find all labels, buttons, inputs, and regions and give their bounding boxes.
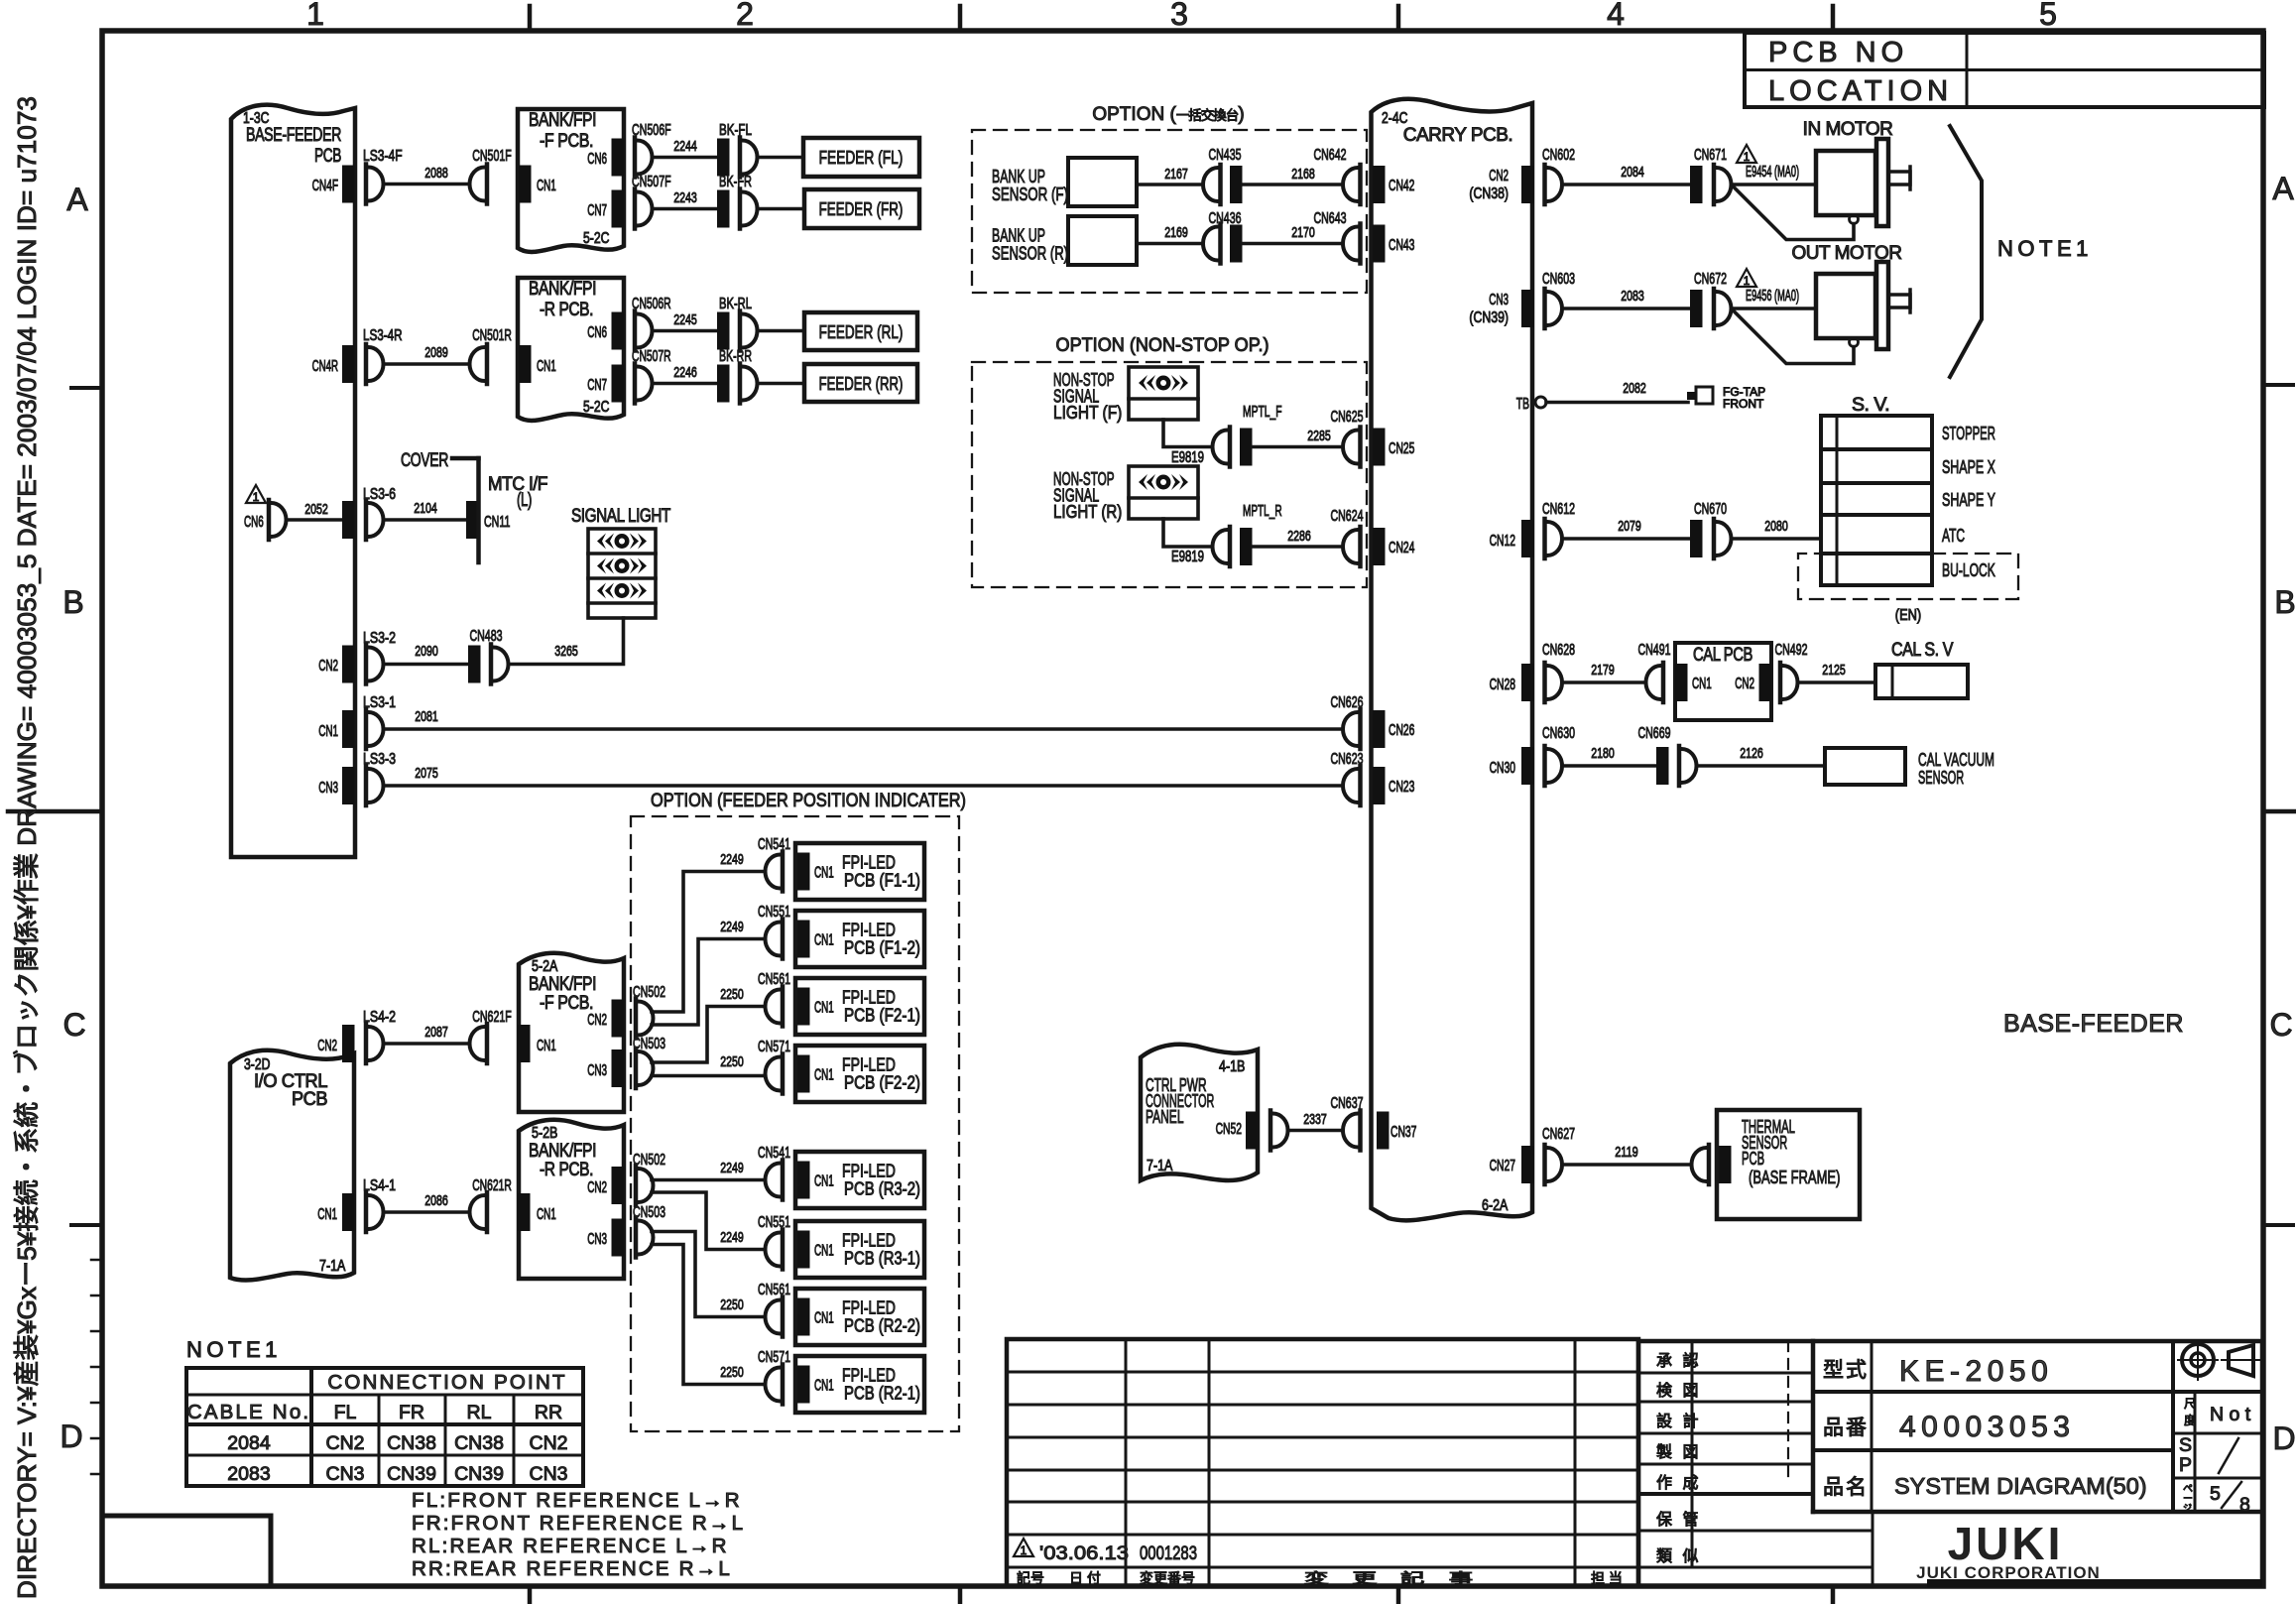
svg-text:40003053: 40003053 xyxy=(1899,1411,2075,1443)
svg-text:E9819: E9819 xyxy=(1171,549,1204,565)
svg-text:CN541: CN541 xyxy=(758,836,790,853)
svg-text:CN561: CN561 xyxy=(758,971,790,988)
svg-text:CN612: CN612 xyxy=(1542,501,1575,518)
connector CN503 on 5-2B xyxy=(636,1218,654,1258)
bottom tick 3/4 xyxy=(1396,1586,1401,1602)
svg-text:2249: 2249 xyxy=(720,1160,744,1176)
connector CN501R xyxy=(470,344,487,384)
connector CN1 header on FPI-LED F2-1 xyxy=(797,988,810,1026)
wire 2286 xyxy=(1253,545,1344,549)
connector CN2 header on CAL PCB xyxy=(1759,664,1772,701)
svg-text:-R PCB.: -R PCB. xyxy=(540,1160,593,1180)
svg-text:担 当: 担 当 xyxy=(1591,1570,1623,1586)
wire 2087 xyxy=(384,1042,470,1046)
connector CN1 header on FPI-LED R2-2 xyxy=(797,1298,810,1336)
svg-text:CN501F: CN501F xyxy=(472,148,512,165)
non-stop signal light R box xyxy=(1129,466,1198,519)
connector CN37 header on CARRY xyxy=(1377,1112,1390,1150)
svg-text:4: 4 xyxy=(1607,0,1625,32)
svg-text:6-2A: 6-2A xyxy=(1482,1197,1509,1214)
connector CN669 header xyxy=(1656,747,1669,785)
SIGNAL LIGHT box xyxy=(588,529,656,618)
wire 2084 xyxy=(1562,183,1690,186)
connector CN623 xyxy=(1343,766,1361,805)
svg-text:BK-RR: BK-RR xyxy=(719,348,752,365)
wire 2244 xyxy=(653,156,718,160)
wire 2170 xyxy=(1243,242,1344,246)
svg-text:BK-FR: BK-FR xyxy=(719,174,752,190)
svg-text:FEEDER (FL): FEEDER (FL) xyxy=(819,147,904,168)
connector CN571 (R) xyxy=(766,1365,784,1405)
connector CN6 header on BANK/FPI-F xyxy=(612,139,625,177)
connector CN24 header on CARRY xyxy=(1373,528,1386,565)
connector CN671 plug xyxy=(1714,165,1732,204)
connector CN436 plug xyxy=(1203,224,1221,264)
svg-text:CN571: CN571 xyxy=(758,1349,790,1366)
wire 2250 CN503R to CN571 xyxy=(652,1245,766,1385)
svg-text:PCB (R3-2): PCB (R3-2) xyxy=(844,1178,920,1199)
CAL VACUUM SENSOR box xyxy=(1825,748,1905,785)
connector CN1 header on BASE-FEEDER xyxy=(342,710,355,748)
connector CN642 xyxy=(1343,165,1361,204)
svg-text:CN2: CN2 xyxy=(1489,168,1509,185)
BANK/FPI-F PCB box (5-2A) xyxy=(519,953,624,1112)
svg-text:CN1: CN1 xyxy=(537,358,556,375)
connector CN1 header on FPI-LED R3-2 xyxy=(797,1162,810,1199)
FPI-LED PCB (R2-1) box xyxy=(795,1356,924,1413)
svg-text:FEEDER (FR): FEEDER (FR) xyxy=(819,198,904,219)
revision entry triangle xyxy=(1014,1539,1033,1556)
svg-text:2169: 2169 xyxy=(1164,224,1188,241)
svg-text:2250: 2250 xyxy=(720,986,744,1003)
connector CN506F xyxy=(635,138,653,178)
connector CN2 header on CARRY xyxy=(1521,166,1534,203)
wire 2245 xyxy=(653,329,718,333)
BU-LOCK dashed box xyxy=(1798,554,2018,599)
svg-text:保 管: 保 管 xyxy=(1656,1511,1701,1529)
svg-text:BK-RL: BK-RL xyxy=(719,296,752,312)
svg-text:SENSOR (F): SENSOR (F) xyxy=(992,184,1068,204)
wire CN671 to IN motor xyxy=(1732,183,1817,186)
connector CN627 xyxy=(1545,1145,1563,1184)
connector CN483 xyxy=(491,645,509,684)
svg-text:CN3: CN3 xyxy=(529,1463,567,1485)
svg-text:2087: 2087 xyxy=(424,1024,448,1041)
svg-text:S: S xyxy=(2179,1434,2192,1456)
wire 2075 to CN623 xyxy=(384,784,1343,788)
wire 2249 CN502R to CN551 xyxy=(652,1192,766,1250)
connector CN436 header xyxy=(1230,225,1243,263)
wire light R to E9819 xyxy=(1163,519,1213,547)
wire 2167 xyxy=(1137,183,1203,186)
svg-text:LS3-4R: LS3-4R xyxy=(363,327,403,344)
BANK UP SENSOR (F) box xyxy=(1068,158,1137,206)
svg-text:2084: 2084 xyxy=(227,1432,271,1454)
svg-text:CN623: CN623 xyxy=(1331,751,1364,768)
svg-text:2286: 2286 xyxy=(1287,528,1311,545)
FPI-LED PCB (F1-2) box xyxy=(795,911,924,967)
svg-text:2337: 2337 xyxy=(1303,1111,1327,1128)
svg-text:0001283: 0001283 xyxy=(1140,1542,1197,1564)
svg-text:(BASE FRAME): (BASE FRAME) xyxy=(1749,1167,1840,1187)
OPTION non-stop dashed box xyxy=(972,362,1367,587)
connector CN602 xyxy=(1545,165,1563,204)
svg-text:E9456 (MA0): E9456 (MA0) xyxy=(1746,288,1799,305)
wire 2082 xyxy=(1546,401,1688,405)
svg-text:2249: 2249 xyxy=(720,851,744,868)
svg-text:CN1: CN1 xyxy=(317,1206,337,1223)
svg-text:CN502: CN502 xyxy=(633,984,665,1001)
bottom tick 1/2 xyxy=(528,1586,533,1602)
svg-text:CN4F: CN4F xyxy=(312,178,338,194)
JUKI logo xyxy=(1916,1518,2101,1582)
connector CN643 xyxy=(1343,224,1361,264)
wire IN motor encoder return xyxy=(1733,185,1855,240)
I/O CTRL PCB box (3-2D) xyxy=(230,1050,354,1281)
row divider B/C left long xyxy=(8,809,102,814)
connector CN52 plug xyxy=(1270,1111,1288,1151)
svg-text:SYSTEM DIAGRAM(50): SYSTEM DIAGRAM(50) xyxy=(1894,1473,2147,1499)
svg-text:5-2B: 5-2B xyxy=(532,1125,557,1142)
svg-text:4-1B: 4-1B xyxy=(1219,1058,1245,1075)
svg-text:PCB: PCB xyxy=(292,1089,327,1110)
svg-text:PCB: PCB xyxy=(1742,1148,1764,1169)
svg-text:CAL PCB: CAL PCB xyxy=(1693,645,1752,666)
connector MPTL_R plug xyxy=(1213,527,1230,566)
wire 2249 CN502 to CN551 xyxy=(652,939,766,1026)
svg-text:PANEL: PANEL xyxy=(1146,1106,1184,1127)
FPI-LED PCB (R3-1) box xyxy=(795,1221,924,1278)
connector CN551 (R) xyxy=(766,1230,784,1270)
connector CN1 header on FPI-LED F1-2 xyxy=(797,921,810,958)
connector LS3-4F xyxy=(366,165,384,204)
svg-text:CN3: CN3 xyxy=(1489,292,1509,308)
wire 2250 CN503R to CN561 xyxy=(652,1232,766,1317)
bottom tick 2/3 xyxy=(958,1586,963,1602)
connector CN541 (R) xyxy=(766,1161,784,1200)
connector CN1 header on FPI-LED R2-1 xyxy=(797,1366,810,1404)
FPI-LED PCB (F1-1) box xyxy=(795,843,924,900)
svg-text:5-2A: 5-2A xyxy=(532,958,558,975)
svg-text:2180: 2180 xyxy=(1591,745,1615,762)
NOTE1 connection point table xyxy=(186,1368,583,1486)
wire 2249 CN502R to CN541 xyxy=(652,1178,766,1182)
connector LS3-1 xyxy=(366,709,384,749)
svg-text:CN628: CN628 xyxy=(1542,642,1575,659)
wire BK-FR to feeder xyxy=(758,207,805,211)
OPTION bank-exchange dashed box xyxy=(972,130,1367,293)
S.V. box xyxy=(1821,416,1932,585)
svg-text:SHAPE Y: SHAPE Y xyxy=(1942,489,1995,510)
connector CN637 xyxy=(1343,1111,1361,1151)
connector CN501F xyxy=(470,165,487,204)
svg-text:CN3: CN3 xyxy=(325,1463,364,1485)
svg-text:CN506F: CN506F xyxy=(632,122,671,139)
svg-text:PCB (R2-2): PCB (R2-2) xyxy=(844,1315,920,1336)
title block bottom bar xyxy=(1927,1579,2262,1587)
left border graduation tick 7 xyxy=(91,1473,102,1476)
svg-text:8: 8 xyxy=(2239,1494,2250,1516)
svg-text:CN436: CN436 xyxy=(1209,210,1242,227)
svg-text:A: A xyxy=(66,182,88,217)
svg-text:2245: 2245 xyxy=(673,311,697,328)
svg-text:品名: 品名 xyxy=(1823,1476,1869,1499)
wire 2104 xyxy=(384,518,467,522)
svg-text:E9454 (MA0): E9454 (MA0) xyxy=(1746,164,1799,181)
wire 2119 xyxy=(1562,1163,1692,1167)
svg-text:7-1A: 7-1A xyxy=(319,1258,346,1275)
svg-text:2285: 2285 xyxy=(1307,428,1331,444)
FEEDER (FR) box xyxy=(804,189,919,228)
svg-text:JUKI: JUKI xyxy=(1948,1518,2064,1569)
svg-text:FL: FL xyxy=(334,1402,357,1423)
svg-text:LS3-6: LS3-6 xyxy=(363,486,396,503)
left border graduation tick 4 xyxy=(91,1366,102,1369)
left border graduation tick 3 xyxy=(91,1330,102,1333)
svg-text:CN507R: CN507R xyxy=(632,348,671,365)
svg-text:B: B xyxy=(2274,584,2295,620)
connector BK-FL header xyxy=(717,139,730,177)
svg-text:2088: 2088 xyxy=(424,165,448,182)
svg-text:類 似: 類 似 xyxy=(1656,1547,1701,1565)
wire 2052 xyxy=(287,518,343,522)
svg-text:CN502: CN502 xyxy=(633,1152,665,1169)
svg-text:2084: 2084 xyxy=(1621,164,1644,181)
svg-text:CN551: CN551 xyxy=(758,904,790,921)
connector CN3 header on 5-2A xyxy=(612,1049,625,1087)
svg-text:2083: 2083 xyxy=(1621,288,1644,305)
svg-text:CN2: CN2 xyxy=(317,1038,337,1054)
svg-text:CN39: CN39 xyxy=(454,1463,504,1485)
wire light F to E9819 xyxy=(1163,420,1213,447)
connector LS3-6 xyxy=(366,500,384,540)
connector BK-FL plug xyxy=(740,138,758,178)
wire BK-FL to feeder xyxy=(758,156,804,160)
svg-text:2086: 2086 xyxy=(424,1192,448,1209)
non-stop light R lamp symbol xyxy=(1139,474,1188,490)
connector CN483 header xyxy=(468,646,481,683)
connector CN670 plug xyxy=(1714,519,1732,558)
connector CN12 header on CARRY xyxy=(1521,520,1534,557)
connector BK-RR plug xyxy=(740,364,758,404)
wire 3265 to signal light xyxy=(509,618,624,665)
svg-text:2082: 2082 xyxy=(1623,380,1646,397)
BANK/FPI-R PCB box (5-2B) xyxy=(519,1120,624,1279)
svg-text:CN503: CN503 xyxy=(633,1204,665,1221)
svg-text:CN2: CN2 xyxy=(529,1432,567,1454)
connector CN541 (F) xyxy=(766,852,784,892)
BASE-FEEDER PCB box xyxy=(231,105,355,857)
svg-text:CN672: CN672 xyxy=(1694,271,1727,288)
svg-text:B: B xyxy=(62,584,83,620)
svg-text:7-1A: 7-1A xyxy=(1147,1158,1173,1174)
svg-text:CN38: CN38 xyxy=(387,1432,436,1454)
PCB NO / LOCATION table xyxy=(1745,33,2264,107)
title block frame xyxy=(1638,1341,2262,1586)
svg-text:BANK/FPI: BANK/FPI xyxy=(529,279,596,300)
wire 2179 xyxy=(1562,680,1646,684)
column tick 4/5 xyxy=(1831,6,1836,31)
wire 2337 xyxy=(1288,1129,1344,1133)
svg-text:CN12: CN12 xyxy=(1490,533,1515,550)
svg-text:DIRECTORY= V:¥産装¥Gxー5¥接続・系統・ブ: DIRECTORY= V:¥産装¥Gxー5¥接続・系統・ブロック関係¥作業 DR… xyxy=(12,96,42,1599)
svg-text:LIGHT (R): LIGHT (R) xyxy=(1053,501,1122,522)
wire BK-RL to feeder xyxy=(758,329,805,333)
svg-text:CN503: CN503 xyxy=(633,1036,665,1052)
svg-text:CN551: CN551 xyxy=(758,1214,790,1231)
connector CN621R xyxy=(470,1192,487,1232)
svg-text:COVER: COVER xyxy=(401,450,448,471)
svg-text:C: C xyxy=(2269,1007,2292,1043)
connector CN561 (R) xyxy=(766,1297,784,1337)
svg-text:CN501R: CN501R xyxy=(472,327,512,344)
svg-text:2: 2 xyxy=(736,0,754,32)
connector CN30 header on CARRY xyxy=(1521,747,1534,785)
svg-text:2075: 2075 xyxy=(415,765,438,782)
CAL PCB box xyxy=(1675,643,1771,720)
svg-text:CAL S. V: CAL S. V xyxy=(1891,640,1954,661)
svg-text:FR:FRONT REFERENCE R→L: FR:FRONT REFERENCE R→L xyxy=(412,1512,745,1535)
svg-text:CN28: CN28 xyxy=(1490,677,1515,693)
svg-text:2090: 2090 xyxy=(415,643,438,660)
svg-text:CN38: CN38 xyxy=(454,1432,504,1454)
column tick 3/4 xyxy=(1396,6,1401,31)
svg-text:CN1: CN1 xyxy=(537,1206,556,1223)
svg-text:CN1: CN1 xyxy=(814,1000,834,1017)
svg-text:CN1: CN1 xyxy=(814,1310,834,1327)
svg-text:RR:REAR REFERENCE R→L: RR:REAR REFERENCE R→L xyxy=(412,1557,732,1580)
wire 2125 xyxy=(1798,680,1876,684)
svg-text:CN624: CN624 xyxy=(1331,508,1364,525)
svg-text:2170: 2170 xyxy=(1291,224,1315,241)
svg-text:CN602: CN602 xyxy=(1542,147,1575,164)
svg-text:PCB (R3-1): PCB (R3-1) xyxy=(844,1248,920,1269)
svg-text:BASE-FEEDER: BASE-FEEDER xyxy=(246,125,341,146)
svg-text:2126: 2126 xyxy=(1740,745,1763,762)
connector CN3 header on 5-2B xyxy=(612,1219,625,1257)
connector MPTL_F plug xyxy=(1213,428,1230,467)
svg-text:PCB (R2-1): PCB (R2-1) xyxy=(844,1383,920,1404)
svg-text:CN483: CN483 xyxy=(470,628,503,645)
svg-text:D: D xyxy=(60,1419,82,1454)
connector LS3-6 header on BASE-FEEDER xyxy=(342,501,355,539)
svg-text:CN1: CN1 xyxy=(537,1038,556,1054)
revision triangle 1 xyxy=(1737,269,1756,287)
FPI-LED PCB (R3-2) box xyxy=(795,1152,924,1208)
wire 2243 xyxy=(653,207,718,211)
svg-text:PCB (F2-2): PCB (F2-2) xyxy=(844,1072,920,1093)
svg-text:CN1: CN1 xyxy=(814,932,834,949)
svg-text:(L): (L) xyxy=(517,490,532,511)
svg-text:1: 1 xyxy=(1744,274,1751,288)
svg-text:FRONT: FRONT xyxy=(1723,397,1764,411)
svg-text:2104: 2104 xyxy=(414,500,437,517)
connector LS4-1 xyxy=(366,1192,384,1232)
connector CN625 xyxy=(1343,428,1361,467)
CTRL PWR CONNECTOR PANEL box (4-1B) xyxy=(1141,1045,1258,1180)
IN MOTOR xyxy=(1816,139,1910,226)
svg-text:2083: 2083 xyxy=(227,1463,270,1485)
svg-text:CN2: CN2 xyxy=(318,658,338,675)
wire OUT motor encoder return xyxy=(1733,309,1855,364)
FPI-LED PCB (R2-2) box xyxy=(795,1289,924,1345)
connector CN1 header on CAL PCB xyxy=(1675,664,1688,701)
svg-text:CN642: CN642 xyxy=(1314,147,1347,164)
THERMAL SENSOR PCB box xyxy=(1717,1110,1860,1219)
svg-text:CN25: CN25 xyxy=(1389,440,1414,457)
connector CN669 plug xyxy=(1679,746,1697,786)
svg-text:3: 3 xyxy=(1170,0,1188,32)
svg-text:2080: 2080 xyxy=(1764,518,1788,535)
connector BK-FR header xyxy=(717,190,730,228)
svg-text:SENSOR (R): SENSOR (R) xyxy=(992,243,1068,264)
connector CN612 xyxy=(1545,519,1563,558)
svg-text:CN2: CN2 xyxy=(325,1432,364,1454)
connector CN4R header on BASE-FEEDER xyxy=(342,345,355,383)
connector CN626 xyxy=(1343,709,1361,749)
bottom-left stamp box xyxy=(102,1516,271,1586)
connector CN1 header on FPI-LED R3-1 xyxy=(797,1231,810,1269)
svg-text:CN669: CN669 xyxy=(1638,725,1671,742)
connector BK-FR plug xyxy=(740,189,758,229)
svg-text:SHAPE X: SHAPE X xyxy=(1942,456,1995,477)
svg-text:CN506R: CN506R xyxy=(632,296,671,312)
svg-text:CN1: CN1 xyxy=(814,1173,834,1190)
svg-text:PCB: PCB xyxy=(314,146,341,167)
connector CN1 header on FPI-LED F2-2 xyxy=(797,1055,810,1093)
connector CN571 (F) xyxy=(766,1054,783,1094)
svg-text:CN1: CN1 xyxy=(814,1067,834,1084)
TB terminal circle xyxy=(1535,397,1546,408)
svg-text:CN571: CN571 xyxy=(758,1039,790,1055)
connector CN2 header on 5-2B xyxy=(612,1167,625,1204)
svg-text:N o t: N o t xyxy=(2210,1404,2251,1425)
svg-text:1: 1 xyxy=(1744,150,1751,164)
svg-text:SENSOR: SENSOR xyxy=(1918,767,1964,788)
FEEDER (RR) box xyxy=(804,364,917,402)
svg-text:2179: 2179 xyxy=(1591,662,1615,679)
non-stop signal light F box xyxy=(1129,367,1198,420)
svg-text:RL:REAR REFERENCE L→R: RL:REAR REFERENCE L→R xyxy=(412,1535,729,1557)
svg-text:P: P xyxy=(2179,1454,2192,1476)
svg-text:ジ: ジ xyxy=(2183,1503,2192,1513)
svg-text:OPTION (NON-STOP OP.): OPTION (NON-STOP OP.) xyxy=(1056,335,1269,356)
row tick C/D left xyxy=(71,1223,102,1227)
left border graduation tick 1 xyxy=(91,1259,102,1262)
connector MPTL_F header xyxy=(1240,429,1253,466)
svg-text:LS3-4F: LS3-4F xyxy=(363,148,403,165)
wire 2079 xyxy=(1562,537,1690,541)
svg-text:CN1: CN1 xyxy=(814,1378,834,1395)
OUT motor sensor circle xyxy=(1850,338,1859,347)
svg-text:CN643: CN643 xyxy=(1314,210,1347,227)
connector CN624 xyxy=(1343,527,1361,566)
svg-text:5-2C: 5-2C xyxy=(583,399,609,416)
wire 2089 xyxy=(384,362,470,366)
svg-text:CN27: CN27 xyxy=(1490,1158,1515,1174)
connector CN43 header on CARRY xyxy=(1373,225,1386,263)
connector LS3-3 xyxy=(366,766,384,805)
BANK/FPI-F PCB box (5-2C) xyxy=(518,109,624,252)
svg-text:1: 1 xyxy=(1021,1543,1027,1557)
connector CN42 header on CARRY xyxy=(1373,166,1386,203)
svg-text:2244: 2244 xyxy=(673,138,697,155)
CARRY PCB box (2-4C) xyxy=(1372,99,1533,1221)
svg-text:BK-FL: BK-FL xyxy=(719,122,752,139)
svg-text:RR: RR xyxy=(535,1402,562,1423)
svg-text:度: 度 xyxy=(2184,1413,2196,1427)
svg-text:日 付: 日 付 xyxy=(1069,1570,1101,1586)
